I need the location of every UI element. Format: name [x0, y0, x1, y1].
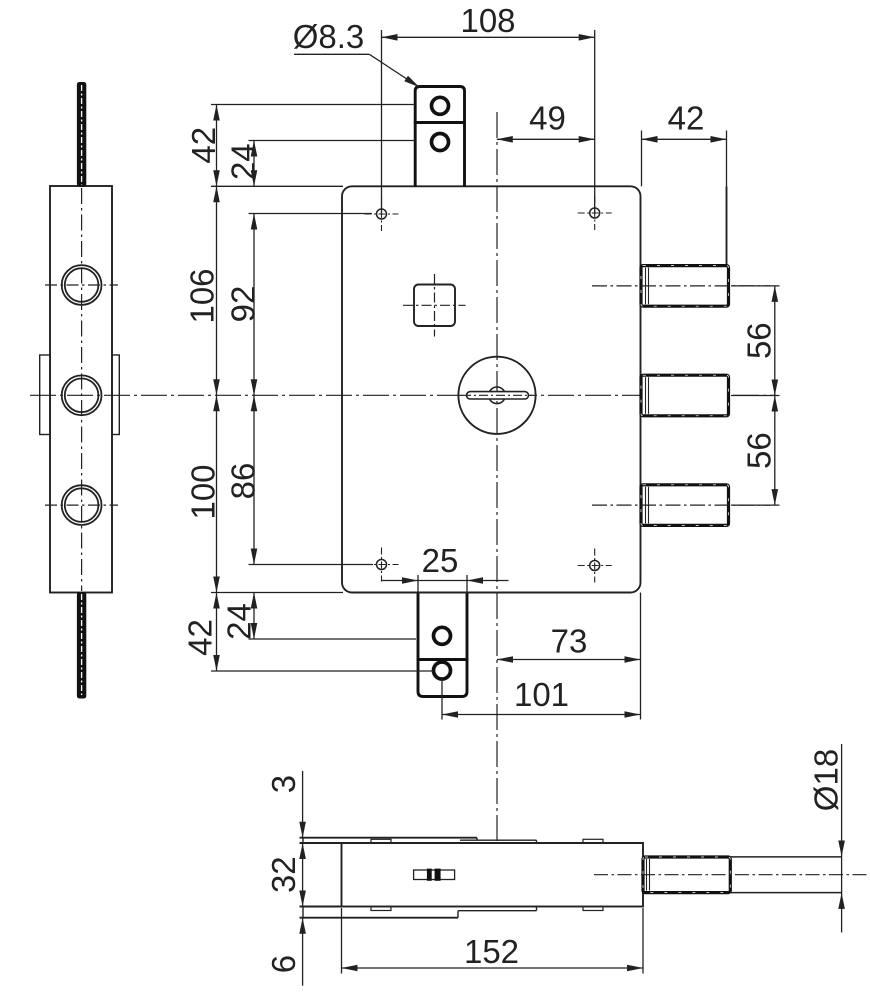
dim 56a line — [774, 286, 776, 396]
bottom view plate bottom line — [300, 917, 459, 919]
svg-text:24: 24 — [225, 143, 262, 180]
spindle hole v centerline — [434, 274, 436, 337]
left view top rod — [77, 82, 86, 187]
svg-text:42: 42 — [668, 100, 705, 137]
dim 25 ext left — [417, 575, 419, 594]
left view middle circle — [62, 375, 102, 415]
top tab lower hole — [432, 134, 449, 151]
bottom tab outline — [418, 593, 467, 697]
left view bottom circle centerline — [45, 504, 118, 506]
dim 108 extension line left — [381, 30, 383, 214]
svg-text:Ø8.3: Ø8.3 — [293, 18, 365, 55]
top tab outline — [415, 87, 464, 188]
dim 42tl line — [216, 105, 218, 187]
svg-text:100: 100 — [185, 464, 222, 519]
bottom view body — [342, 843, 644, 907]
dim 152 line — [342, 967, 644, 969]
dim 42r ext right — [726, 131, 728, 187]
ext line top screw holes — [249, 213, 373, 215]
dim 42bl line — [216, 593, 218, 672]
bottom view bottom notch right — [583, 907, 603, 911]
left view top circle centerline — [45, 284, 118, 286]
ext line bolt2 right — [731, 395, 780, 397]
dim 6 line — [302, 918, 304, 986]
svg-text:101: 101 — [514, 676, 569, 713]
svg-text:86: 86 — [225, 463, 262, 500]
deadbolt 1 — [641, 266, 729, 307]
dim 152 ext right — [642, 908, 644, 974]
lock body — [342, 186, 641, 592]
svg-text:49: 49 — [529, 100, 566, 137]
bottom tab lower hole — [434, 662, 451, 679]
deadbolt 2 — [641, 375, 729, 416]
dim 42r line — [642, 138, 727, 140]
screw hole bottom-left — [377, 560, 387, 570]
dim dia18 line — [841, 744, 843, 933]
svg-text:56: 56 — [741, 322, 778, 359]
dim 3 line — [302, 771, 304, 838]
svg-text:25: 25 — [422, 542, 459, 579]
bolt housing right side — [726, 186, 728, 266]
ext line tab hole drop — [441, 678, 443, 720]
ext line body top — [211, 185, 343, 187]
screw hole bottom-right — [590, 561, 600, 571]
bottom view top notch left — [371, 839, 391, 843]
bottom view rod top line — [730, 856, 841, 858]
ext line bottom tab upper hole — [249, 638, 417, 640]
left view vertical centerline — [81, 188, 83, 591]
deadbolt 3 centerline — [592, 504, 770, 506]
dim 25 line — [381, 580, 509, 582]
ext line bolt3 right — [731, 504, 780, 506]
dim 49 line — [497, 138, 595, 140]
cylinder circle — [458, 357, 535, 434]
svg-text:42: 42 — [185, 127, 222, 164]
top tab upper hole — [432, 97, 449, 114]
bottom view body bottom ext — [300, 906, 342, 908]
dim 32 line — [302, 843, 304, 907]
dim 108 line — [382, 36, 595, 38]
square spindle hole — [414, 285, 455, 327]
dim 92 line — [253, 214, 255, 396]
dim 42r ext left — [641, 131, 643, 187]
bottom view bolt — [643, 857, 730, 893]
dim 106 line — [216, 186, 218, 395]
spindle hole h centerline — [403, 304, 466, 306]
left view upper side tab — [40, 355, 51, 435]
svg-text:6: 6 — [265, 955, 302, 973]
dim 73 line — [497, 659, 641, 661]
screw hole top-right — [590, 208, 600, 218]
left view lower side tab — [112, 355, 119, 435]
bottom view spindle hub — [414, 870, 455, 880]
dim 108 extension line right — [594, 30, 596, 213]
svg-text:92: 92 — [225, 286, 262, 323]
svg-text:42: 42 — [182, 619, 219, 656]
left view bottom circle — [62, 485, 102, 525]
dim 25 ext right — [466, 575, 468, 594]
bottom view plate step line — [460, 839, 537, 841]
bottom view bottom notch left — [371, 907, 391, 911]
svg-text:108: 108 — [460, 2, 515, 39]
svg-text:Ø18: Ø18 — [808, 749, 845, 811]
bottom view plate left end — [302, 838, 304, 843]
bottom tab divider — [417, 658, 469, 661]
bottom view centerline — [594, 874, 867, 876]
ext line top tab upper hole — [211, 104, 415, 106]
deadbolt 3 — [641, 485, 729, 526]
ext line bolt1 right — [731, 285, 780, 287]
deadbolt 1 centerline — [592, 285, 770, 287]
dim 152 ext left — [341, 908, 343, 974]
screw hole top-left — [377, 209, 387, 219]
bottom view body top line — [300, 842, 644, 844]
main vertical centerline — [496, 112, 498, 841]
ext line bottom screw holes — [249, 564, 374, 566]
ext line bottom tab lower hole — [211, 670, 433, 672]
left view bottom rod — [77, 592, 86, 699]
key slot — [467, 392, 529, 399]
svg-text:73: 73 — [551, 623, 588, 660]
ext body right edge down — [640, 593, 642, 720]
main horizontal centerline — [30, 394, 776, 396]
bottom tab upper hole — [434, 627, 451, 644]
dim dia8.3 leader — [294, 53, 369, 55]
bottom view faceplate top line — [300, 837, 478, 839]
dim 101 line — [442, 714, 641, 716]
left view faceplate — [50, 186, 112, 593]
left view top circle — [62, 265, 102, 305]
key slot centerline — [462, 394, 532, 396]
dim 86 line — [253, 395, 255, 564]
bottom view top notch right — [583, 839, 603, 843]
svg-text:56: 56 — [741, 432, 778, 469]
dim 24bl line — [253, 593, 255, 640]
ext line top tab lower hole — [249, 140, 416, 142]
bottom view rod bottom line — [730, 892, 841, 894]
dim 100 line — [216, 395, 218, 592]
svg-text:106: 106 — [184, 268, 221, 323]
svg-text:32: 32 — [265, 856, 302, 893]
top tab divider — [414, 121, 466, 124]
key hub circle — [489, 387, 506, 404]
dim 56b line — [774, 396, 776, 506]
svg-text:152: 152 — [464, 933, 519, 970]
svg-text:24: 24 — [221, 603, 258, 640]
dim 24tl line — [253, 141, 255, 187]
ext line body bottom — [211, 592, 343, 594]
svg-text:3: 3 — [265, 775, 302, 793]
